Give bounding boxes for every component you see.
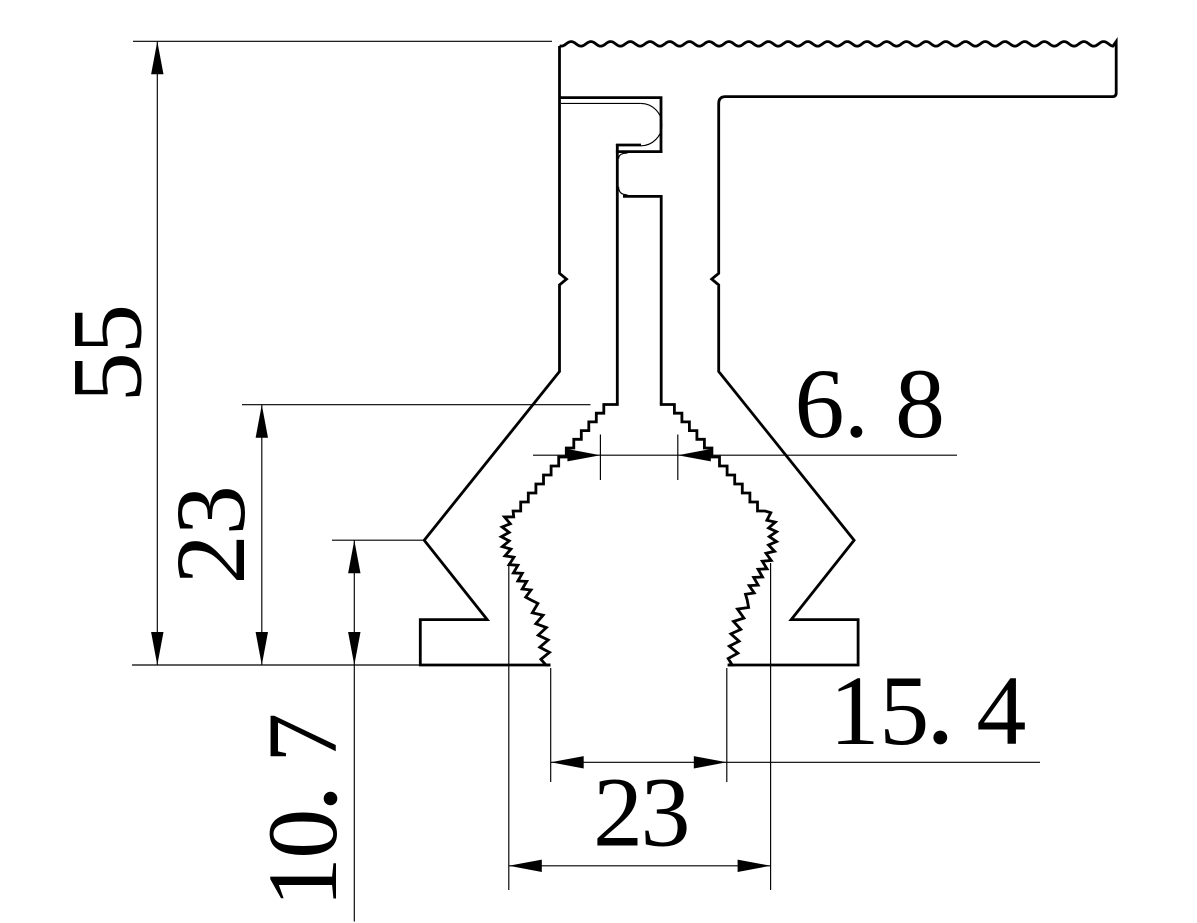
svg-text:6: 6 xyxy=(795,348,845,459)
svg-text:1: 1 xyxy=(247,857,358,907)
svg-text:8: 8 xyxy=(895,348,945,459)
profile left wall with break mark, left diagonal and left foot xyxy=(420,46,566,665)
svg-text:2: 2 xyxy=(155,534,266,584)
threaded neck right side xyxy=(661,403,776,665)
hook step xyxy=(616,144,641,147)
svg-text:3: 3 xyxy=(155,485,266,535)
fillet under hook floor xyxy=(619,153,628,159)
dimension 23 bottom line xyxy=(509,865,771,867)
dimension 6.8 extension lines xyxy=(600,435,677,481)
dimension 10.7 decimal dot xyxy=(324,792,338,806)
svg-text:5: 5 xyxy=(52,304,163,354)
svg-text:1: 1 xyxy=(830,655,880,766)
stem notch floor and stem right edge xyxy=(623,196,661,404)
svg-text:5: 5 xyxy=(879,655,929,766)
fillet above stem notch floor xyxy=(619,187,628,195)
dimension 23 left arrow top xyxy=(256,405,268,438)
dimension 6.8 decimal dot xyxy=(851,426,863,438)
svg-text:4: 4 xyxy=(976,655,1026,766)
dimension 15.4 extension lines xyxy=(551,668,727,782)
bottom extension base line xyxy=(132,664,420,666)
hook rounded nose xyxy=(641,103,662,145)
dimension 23 bottom extension lines xyxy=(509,563,771,890)
dimension 23 left extension line xyxy=(242,404,591,406)
stem left edge xyxy=(616,144,619,404)
dimension 23 left arrow bottom xyxy=(256,632,268,665)
hook slot upper edge xyxy=(561,102,641,104)
svg-text:0: 0 xyxy=(247,809,358,859)
dimension 6.8 line xyxy=(533,454,957,456)
dimension 6.8 arrow left xyxy=(567,449,600,461)
dimension 15.4 arrow left xyxy=(551,756,584,768)
svg-text:2: 2 xyxy=(593,757,643,868)
svg-text:5: 5 xyxy=(52,352,163,402)
dimension 6.8 arrow right xyxy=(678,449,711,461)
dimension 15.4 decimal dot xyxy=(933,731,947,745)
profile top bar with serrated clamp face, right wall with break mark, right diagonal and right foot xyxy=(560,42,1117,666)
dimension 15.4 arrow right xyxy=(694,756,727,768)
svg-text:7: 7 xyxy=(247,713,358,763)
dimension 10.7 extension line xyxy=(332,539,424,541)
dimension 55 extension line top xyxy=(133,40,552,42)
threaded neck left side xyxy=(501,403,617,665)
dimension 15.4 line xyxy=(551,761,1040,763)
dimension 55 arrow top xyxy=(151,41,163,74)
dimension 23 bottom arrow left xyxy=(509,860,542,872)
dimension 55 line xyxy=(156,41,158,665)
hook slot floor xyxy=(616,150,663,153)
dimension 55 arrow bottom xyxy=(151,632,163,665)
svg-text:3: 3 xyxy=(641,757,691,868)
dimension 10.7 arrow bottom xyxy=(348,632,360,665)
top bar bottom edge left segment xyxy=(559,96,663,99)
dimension 23 left line xyxy=(261,405,263,665)
dimension 23 bottom arrow right xyxy=(738,860,771,872)
dimension 10.7 line xyxy=(353,540,355,921)
dimension 10.7 arrow top xyxy=(348,540,360,573)
hook slot right wall xyxy=(660,98,663,152)
